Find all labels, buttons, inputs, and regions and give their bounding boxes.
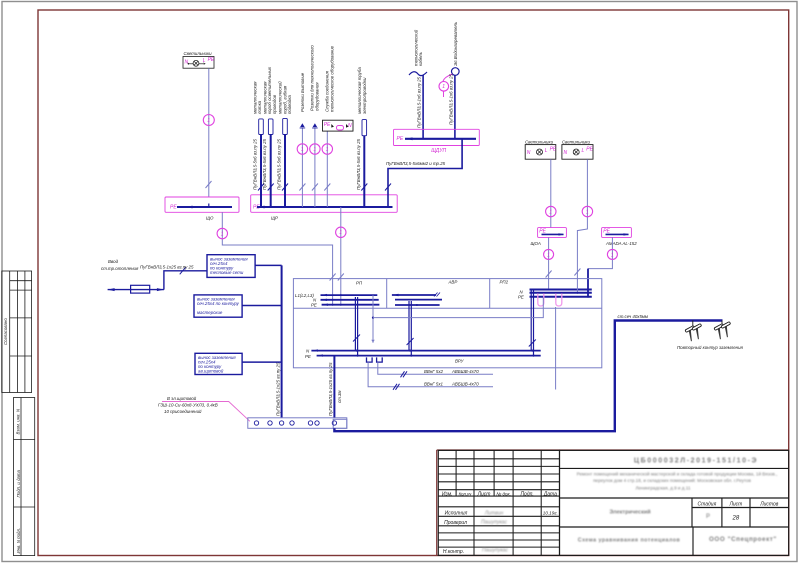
svg-text:ЦБ000032Л-2019-151/10-Э: ЦБ000032Л-2019-151/10-Э	[634, 458, 758, 465]
svg-text:Согласовано: Согласовано	[3, 318, 8, 345]
svg-text:Стадия: Стадия	[698, 501, 717, 507]
svg-text:ст.сеч 40х5мм: ст.сеч 40х5мм	[618, 314, 648, 319]
svg-text:Электрический: Электрический	[609, 509, 650, 516]
svg-text:1: 1	[221, 231, 224, 237]
svg-text:Р: Р	[706, 514, 710, 520]
svg-text:1: 1	[301, 147, 304, 153]
svg-text:В эл.щитовой: В эл.щитовой	[167, 396, 197, 401]
svg-text:Подп. и дата: Подп. и дата	[16, 469, 21, 497]
svg-text:Эл.Водонагреватель: Эл.Водонагреватель	[453, 21, 458, 66]
svg-text:ПуГВнВЛ3,5-5х6 вз.пу 25: ПуГВнВЛ3,5-5х6 вз.пу 25	[356, 138, 361, 190]
svg-text:Н.контр.: Н.контр.	[443, 549, 464, 555]
svg-text:N: N	[185, 60, 189, 66]
svg-text:L: L	[582, 148, 585, 154]
svg-text:подводка: подводка	[287, 95, 292, 114]
svg-text:№ док.: № док.	[496, 491, 511, 496]
svg-text:ав.щитовой: ав.щитовой	[198, 369, 224, 374]
svg-text:Дата: Дата	[543, 491, 557, 497]
svg-text:Светильники: Светильники	[525, 140, 554, 145]
svg-text:N: N	[564, 150, 568, 156]
svg-text:тепловые сети: тепловые сети	[210, 270, 244, 275]
svg-text:1: 1	[586, 209, 589, 215]
svg-text:АВР: АВР	[448, 279, 458, 284]
svg-text:PE: PE	[539, 228, 546, 234]
svg-text:Розетки Бытовые: Розетки Бытовые	[300, 72, 305, 112]
svg-text:ВВнГ 5х2: ВВнГ 5х2	[424, 369, 444, 374]
svg-text:1: 1	[326, 147, 329, 153]
svg-text:ст.3м: ст.3м	[337, 391, 342, 403]
svg-text:сеч.25х4 по контуру: сеч.25х4 по контуру	[197, 301, 240, 306]
svg-text:АВБШВ-4х70: АВБШВ-4х70	[451, 369, 479, 374]
svg-text:ЩОА: ЩОА	[531, 241, 541, 246]
svg-text:ЩО: ЩО	[206, 216, 214, 221]
svg-text:РП2: РП2	[500, 279, 509, 284]
svg-text:PE: PE	[324, 122, 331, 128]
svg-text:электропроводки: электропроводки	[362, 77, 367, 114]
svg-text:28: 28	[732, 516, 740, 522]
svg-text:переулок дом 4 стр.18, и склад: переулок дом 4 стр.18, и складских помещ…	[593, 477, 751, 483]
svg-text:Листов: Листов	[759, 501, 779, 507]
svg-text:ПуГВнВЛ3,5-5х6 вз.пу 25: ПуГВнВЛ3,5-5х6 вз.пу 25	[253, 138, 258, 190]
svg-text:N: N	[348, 123, 352, 129]
svg-text:лотка: лотка	[257, 100, 262, 115]
svg-text:1: 1	[549, 209, 552, 215]
svg-text:Ввод: Ввод	[108, 259, 119, 264]
svg-text:L: L	[545, 148, 548, 154]
svg-text:10.19г.: 10.19г.	[543, 511, 558, 516]
svg-text:10 присоединений: 10 присоединений	[164, 409, 202, 414]
svg-text:ЩР: ЩР	[271, 216, 278, 221]
svg-text:Повторный контур заземления: Повторный контур заземления	[677, 345, 744, 350]
svg-text:Лист: Лист	[728, 501, 742, 507]
svg-text:ЩДУП: ЩДУП	[431, 148, 446, 154]
svg-text:Изм.: Изм.	[442, 491, 453, 497]
svg-text:ст.тр.отопления: ст.тр.отопления	[101, 266, 139, 271]
svg-text:Проверил: Проверил	[444, 520, 467, 526]
svg-text:ПуГВнВЛ3,5-1х25 вз.пу 25: ПуГВнВЛ3,5-1х25 вз.пу 25	[275, 362, 280, 416]
svg-text:Пашупукас: Пашупукас	[481, 520, 507, 526]
svg-text:1: 1	[442, 84, 445, 90]
svg-text:проводов: проводов	[272, 94, 277, 114]
svg-text:1: 1	[313, 147, 316, 153]
svg-text:1: 1	[207, 118, 210, 124]
svg-text:PE: PE	[170, 204, 177, 210]
svg-text:ВРУ: ВРУ	[455, 359, 465, 364]
svg-text:ПуГВнВЛ3,5-1х6 вз.пу 25: ПуГВнВЛ3,5-1х6 вз.пу 25	[417, 76, 422, 128]
svg-text:Ленинградская, д.9 и д.11: Ленинградская, д.9 и д.11	[635, 486, 690, 491]
svg-text:ПуГВнВЛ3,5-1х25 вз.пу 25: ПуГВнВЛ3,5-1х25 вз.пу 25	[140, 265, 194, 270]
svg-text:PE: PE	[208, 57, 215, 63]
svg-text:AMADA AL-152: AMADA AL-152	[605, 241, 637, 246]
svg-text:Светильники: Светильники	[184, 51, 213, 56]
svg-text:ПуГВнВЛ3,5-5х6мм2 и тр.25: ПуГВнВЛ3,5-5х6мм2 и тр.25	[386, 161, 446, 166]
svg-text:кабель: кабель	[418, 51, 423, 66]
svg-text:ПуГВнВЛ3,5-1х25 вз.пу 25: ПуГВнВЛ3,5-1х25 вз.пу 25	[328, 362, 333, 416]
svg-text:PE: PE	[603, 228, 610, 234]
svg-text:ПуГВнВЛ3,5-5х6 вз.пу 25: ПуГВнВЛ3,5-5х6 вз.пу 25	[262, 138, 267, 190]
svg-text:PE: PE	[397, 136, 404, 142]
svg-text:РП: РП	[356, 281, 363, 286]
svg-text:L: L	[203, 58, 206, 64]
svg-text:Ремонт помещений механической: Ремонт помещений механической мастерской…	[577, 471, 778, 477]
svg-text:1: 1	[611, 252, 614, 258]
svg-text:Исполнил: Исполнил	[445, 511, 468, 517]
svg-text:Инв. N подл.: Инв. N подл.	[16, 528, 21, 554]
svg-text:1: 1	[547, 252, 550, 258]
svg-text:ГЗШ-10-Cu-60х8-УХЛ3, 0.4кВ: ГЗШ-10-Cu-60х8-УХЛ3, 0.4кВ	[158, 403, 218, 408]
svg-text:Лист: Лист	[477, 491, 491, 497]
svg-text:Пашупукас: Пашупукас	[482, 548, 508, 554]
svg-text:PE: PE	[550, 146, 557, 152]
svg-text:ВВнГ 5х1: ВВнГ 5х1	[424, 382, 444, 387]
svg-text:N: N	[527, 150, 531, 156]
svg-text:Взам. инв. N: Взам. инв. N	[16, 408, 21, 434]
svg-text:Схема уравнивания потенциалов: Схема уравнивания потенциалов	[578, 538, 681, 544]
svg-text:АВБШВ-4х70: АВБШВ-4х70	[451, 382, 479, 387]
svg-text:1: 1	[339, 230, 342, 236]
svg-text:Кол.уч: Кол.уч	[459, 491, 473, 496]
svg-text:технологическое оборудование: технологическое оборудование	[329, 45, 334, 112]
svg-text:ПуГВнВЛ3,5-1х6 вз.пу 25: ПуГВнВЛ3,5-1х6 вз.пу 25	[448, 73, 453, 125]
svg-text:Подп.: Подп.	[520, 491, 533, 497]
svg-text:ПуГВнВЛ3,5-5х6 вз.пу 25: ПуГВнВЛ3,5-5х6 вз.пу 25	[277, 138, 282, 190]
svg-text:Светильники: Светильники	[562, 140, 591, 145]
svg-text:мастерские: мастерские	[197, 310, 223, 315]
svg-text:оборудования: оборудования	[314, 82, 319, 111]
svg-text:ООО "Спецпроект": ООО "Спецпроект"	[709, 536, 777, 543]
svg-text:PE: PE	[518, 295, 524, 300]
svg-text:PE: PE	[586, 146, 593, 152]
svg-text:PE: PE	[311, 303, 317, 308]
svg-text:Литвин: Литвин	[484, 511, 504, 517]
svg-text:L1(L2,L3): L1(L2,L3)	[295, 293, 314, 298]
svg-text:PE: PE	[305, 354, 311, 359]
